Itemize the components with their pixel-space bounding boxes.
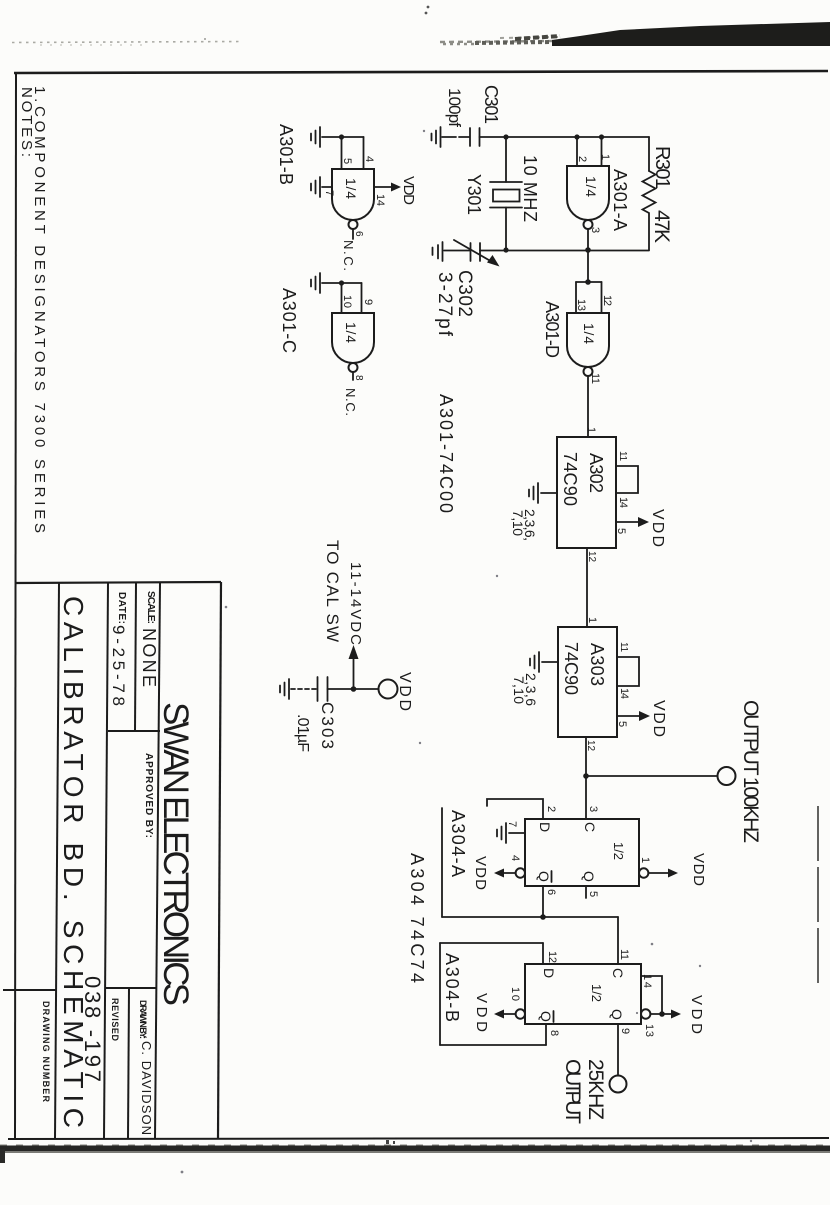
terminal VDD [379, 680, 398, 699]
svg-text:1: 1 [586, 617, 598, 623]
svg-text:7: 7 [323, 190, 335, 196]
svg-text:C: C [610, 968, 626, 978]
pin 8 N.C. stub [352, 372, 354, 380]
wire A304-A feedback rail to pin 11 [617, 917, 619, 964]
svg-text:TO CAL SW: TO CAL SW [323, 540, 342, 642]
capacitor C301 100pf [470, 128, 480, 146]
pin 5 VDD arrow A303 [616, 700, 667, 737]
svg-text:D: D [541, 968, 557, 978]
svg-text:Q: Q [536, 871, 552, 882]
IC A302 74C90 [557, 437, 616, 548]
pin 5 stub [585, 886, 587, 898]
scan artifact: right vertical line [817, 806, 819, 988]
node at pin1 [599, 134, 604, 139]
svg-text:11: 11 [618, 642, 629, 652]
svg-text:DATE:: DATE: [116, 592, 127, 624]
svg-text:A301-B: A301-B [276, 124, 296, 185]
svg-text:VDD: VDD [650, 700, 667, 737]
nand gate A301-C 1/4 [332, 313, 374, 372]
wire bottom rail [480, 250, 649, 252]
terminal 25KHZ OUTPUT [610, 1076, 627, 1093]
pin 1 bubble VDD arrow [639, 853, 707, 886]
wire pin 2 feed [487, 799, 543, 819]
ground (A304-A pin 7) [497, 823, 525, 843]
svg-text:11: 11 [617, 451, 628, 461]
node pin 5 [339, 134, 344, 139]
svg-text:C: C [582, 822, 598, 832]
svg-text:N.C.: N.C. [343, 388, 358, 416]
node at C301/Y301 [503, 134, 508, 139]
pin 13 bubble [641, 1009, 650, 1018]
wire gate D output to A302 pin 1 [587, 376, 589, 437]
IC A303 74C90 [558, 627, 617, 737]
svg-text:7,10: 7,10 [511, 676, 527, 704]
svg-text:2: 2 [545, 806, 557, 812]
svg-text:5: 5 [341, 158, 353, 164]
wire pins 11-14 loop A303 [617, 657, 639, 686]
border frame bottom thick scan edge [0, 1140, 830, 1152]
svg-text:A304-A: A304-A [448, 810, 468, 877]
svg-text:Q: Q [538, 1011, 554, 1022]
node pin 10 [339, 280, 344, 285]
scan artifact: top right dark bar [440, 22, 830, 46]
node gate A output [585, 247, 591, 253]
svg-text:9: 9 [619, 1028, 631, 1034]
svg-text:.01µF: .01µF [294, 714, 311, 752]
svg-text:Q: Q [609, 1009, 625, 1020]
pin 14 VDD arrow [374, 176, 417, 206]
svg-text:A301-A: A301-A [610, 169, 630, 231]
svg-text:100pf: 100pf [445, 88, 464, 127]
wire pins 14-13 loop [641, 976, 662, 1014]
flip-flop A304-B 1/2 [525, 964, 641, 1024]
svg-text:14: 14 [374, 194, 386, 206]
border frame top [14, 71, 828, 73]
svg-text:APPROVED BY:: APPROVED BY: [143, 753, 154, 838]
svg-text:1: 1 [599, 154, 611, 160]
border frame bottom thin [8, 1138, 829, 1139]
svg-text:12: 12 [586, 551, 597, 562]
svg-text:7,10: 7,10 [510, 510, 526, 536]
svg-text:R301: R301 [651, 146, 673, 189]
wire A302 pin 12 to A303 pin 1 [586, 548, 588, 627]
capacitor C303 .01uF [318, 677, 379, 701]
svg-text:1/2: 1/2 [589, 984, 604, 1002]
wire gate A output to bottom rail [587, 229, 589, 250]
svg-text:1: 1 [639, 857, 651, 863]
svg-text:13: 13 [575, 299, 587, 311]
node pin13/14 [659, 1011, 665, 1017]
svg-text:VDD: VDD [688, 995, 705, 1034]
svg-text:VDD: VDD [472, 856, 489, 890]
terminal OUTPUT 100KHZ [718, 767, 736, 785]
svg-text:SWAN ELECTRONICS: SWAN ELECTRONICS [156, 702, 195, 1006]
svg-text:A301-C: A301-C [279, 288, 299, 353]
wire feedback Q bar to D (A304-B) [440, 943, 546, 1045]
ground (A302 pins 2,3,6,7,10) [529, 483, 557, 503]
pin 10 bubble VDD arrow [473, 993, 525, 1032]
wire feedback Q bar to D (A304-A) [442, 808, 618, 917]
ground (A301-B pin 7) [311, 177, 332, 197]
svg-text:10: 10 [341, 295, 353, 308]
svg-text:038 -197: 038 -197 [80, 976, 105, 1082]
wire to output terminal [586, 775, 717, 777]
svg-text:7: 7 [506, 821, 518, 827]
ground (C301) [432, 127, 470, 147]
wire pin 9 to output terminal [617, 1024, 619, 1075]
svg-text:Y301: Y301 [464, 174, 484, 215]
pin 5 VDD arrow A302 [615, 509, 666, 547]
svg-text:3: 3 [589, 227, 601, 233]
svg-text:5: 5 [616, 721, 628, 727]
svg-text:VDD: VDD [400, 176, 417, 205]
wire A303 pin 12 down [585, 737, 587, 819]
svg-text:VDD: VDD [473, 993, 490, 1032]
svg-text:A303: A303 [587, 643, 607, 686]
node above gate D [585, 279, 591, 285]
nand gate A301-A 1/4 [567, 137, 609, 229]
resistor R301 47K [643, 171, 656, 250]
svg-text:2: 2 [576, 156, 588, 162]
svg-text:12: 12 [546, 951, 558, 963]
svg-text:14: 14 [618, 688, 630, 699]
svg-text:Q: Q [581, 871, 597, 882]
svg-text:DRAWN BY:: DRAWN BY: [138, 1000, 148, 1039]
node C303/VDD [351, 686, 357, 692]
svg-text:A302: A302 [586, 453, 606, 493]
svg-text:VDD: VDD [690, 853, 707, 886]
wire gate A out down to gate D [587, 250, 589, 282]
svg-text:OUTPUT 100KHZ: OUTPUT 100KHZ [739, 700, 762, 843]
svg-text:1/4: 1/4 [581, 323, 597, 344]
svg-text:5: 5 [587, 891, 599, 897]
wire A301-B input pins 5,4 [342, 137, 364, 169]
scan artifact: bottom left edge mark [0, 1149, 5, 1163]
svg-text:14: 14 [617, 497, 629, 508]
svg-text:OUTPUT: OUTPUT [561, 1059, 584, 1124]
node at pin2 [574, 134, 579, 139]
svg-text:VDD: VDD [396, 672, 413, 711]
svg-text:10 MHZ: 10 MHZ [520, 155, 540, 222]
svg-text:8: 8 [353, 375, 364, 381]
svg-text:A301-74C00: A301-74C00 [436, 394, 456, 513]
svg-text:1: 1 [585, 427, 597, 433]
scan specks [181, 130, 753, 1174]
wire main top rail [480, 136, 650, 138]
svg-text:4: 4 [363, 156, 375, 162]
wire A301-C input pins 10,9 [342, 283, 362, 313]
svg-text:12: 12 [601, 295, 613, 306]
svg-text:9: 9 [362, 299, 374, 305]
svg-text:74C90: 74C90 [561, 642, 581, 695]
svg-text:47K: 47K [650, 210, 673, 243]
ground (A301-B inputs) [311, 127, 342, 147]
pin 6 N.C. stub [352, 229, 354, 239]
svg-text:74C90: 74C90 [560, 452, 580, 506]
svg-text:8: 8 [548, 1030, 560, 1036]
node crystal bottom [503, 247, 508, 252]
svg-text:A304-B: A304-B [442, 953, 462, 1022]
svg-text:C301: C301 [481, 85, 501, 124]
crystal Y301 10 MHZ [490, 137, 522, 251]
nand gate A301-D 1/4 [567, 313, 609, 376]
svg-text:1/4: 1/4 [343, 322, 359, 343]
svg-text:1/4: 1/4 [343, 178, 359, 199]
ground (A303 pins 2,3,6,7,10) [530, 652, 558, 672]
scan artifact: small colon mark top middle [425, 6, 430, 15]
trimmer capacitor C302 3-27pf [454, 240, 500, 267]
svg-text:13: 13 [643, 1024, 655, 1037]
node output 100KHZ [583, 773, 589, 779]
border frame left [15, 74, 16, 1140]
node feedback junction [540, 914, 546, 920]
svg-text:SCALE:: SCALE: [145, 591, 156, 624]
svg-text:11: 11 [589, 373, 601, 384]
svg-text:REVISED: REVISED [110, 998, 120, 1042]
svg-text:12: 12 [585, 740, 596, 751]
svg-text:1/4: 1/4 [583, 176, 599, 197]
svg-text:4: 4 [509, 855, 521, 861]
svg-text:C302: C302 [454, 270, 475, 317]
svg-text:11: 11 [618, 949, 630, 960]
svg-text:25KHZ: 25KHZ [584, 1059, 607, 1120]
svg-text:1/2: 1/2 [611, 842, 626, 860]
wire rail down to R301 [648, 137, 650, 171]
svg-text:VDD: VDD [649, 509, 666, 547]
scan artifact: top speckled line left [12, 38, 240, 45]
pin 4 bubble VDD arrow [472, 856, 525, 890]
title block frame [3, 582, 221, 1139]
flip-flop A304-A 1/2 [525, 819, 639, 886]
svg-text:3: 3 [587, 806, 599, 812]
wire gate D input connector [576, 282, 602, 313]
VDD arrow (pins 13,14) [650, 995, 705, 1034]
svg-text:5: 5 [615, 528, 627, 534]
svg-text:A304 74C74: A304 74C74 [407, 853, 427, 983]
svg-text:C303: C303 [318, 702, 337, 749]
svg-text:6: 6 [353, 231, 364, 237]
arrow 11-14VDC TO CAL SW [323, 540, 364, 689]
svg-text:D: D [537, 822, 553, 832]
svg-text:A301-D: A301-D [542, 301, 562, 358]
svg-text:10: 10 [509, 987, 521, 1001]
nand gate A301-B 1/4 [332, 169, 374, 229]
ground (C302) [433, 242, 471, 261]
wire pins 11-14 loop A302 [616, 466, 638, 493]
svg-text:C. DAVIDSON: C. DAVIDSON [139, 1041, 154, 1135]
ground (A301-C inputs) [311, 273, 342, 293]
svg-text:6: 6 [545, 889, 557, 895]
ground (C303) [280, 679, 317, 699]
